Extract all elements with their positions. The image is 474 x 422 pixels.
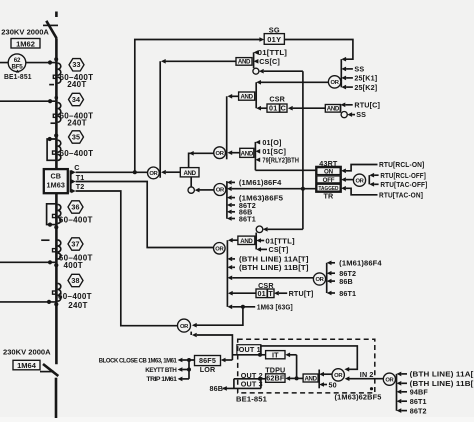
svg-text:60–400T: 60–400T: [58, 292, 92, 301]
output contact OUT 1: [237, 345, 261, 355]
or-gate close supervision: [328, 76, 340, 88]
svg-text:AND: AND: [238, 59, 251, 66]
svg-text:230KV 2000A: 230KV 2000A: [1, 28, 49, 37]
hexagon 37: [68, 238, 83, 250]
wire 43RT TAGGED line: [227, 186, 316, 191]
svg-text:AND: AND: [183, 170, 196, 177]
input 86T2: [227, 201, 256, 210]
input RTU[T]: [274, 289, 313, 298]
and-gate RTU close: [325, 105, 340, 113]
or-gate 86 lockouts: [214, 184, 226, 196]
hexagon 34: [69, 93, 84, 105]
input (1M61)86F4: [327, 259, 382, 268]
86F5 output rail: [189, 360, 195, 379]
CT 35 with bracket: [47, 133, 61, 160]
input RTU[RCL-OFF]: [369, 171, 426, 180]
input CS[C]: [254, 57, 280, 66]
svg-text:OUT 1: OUT 1: [239, 345, 261, 354]
input 86T1: [397, 397, 427, 406]
svg-text:62BF: 62BF: [266, 374, 285, 383]
arrow into AND2 collector: [256, 80, 261, 85]
node dots feeder 4: [47, 300, 51, 304]
input 1M63 [63G]: [227, 303, 292, 312]
or-gate BF internal: [332, 369, 344, 381]
svg-text:01[TTL]: 01[TTL]: [265, 236, 294, 245]
close interlock collector: [340, 59, 342, 87]
node dot feeder 2: [48, 99, 52, 103]
svg-text:RTU[C]: RTU[C]: [354, 101, 380, 110]
label box 1M62: [11, 39, 40, 49]
svg-text:86B: 86B: [210, 384, 224, 393]
input (BTH LINE) 11A[T]: [227, 255, 308, 264]
input RTU[TAC-ON]: [341, 186, 423, 200]
svg-text:36: 36: [71, 202, 79, 211]
timer TDPU 62BF box: [265, 365, 285, 382]
wire AND-bf output: [290, 377, 303, 379]
svg-text:86T1: 86T1: [239, 214, 256, 223]
CT 38: [53, 283, 61, 301]
svg-text:1M62: 1M62: [16, 39, 35, 48]
wire OR to AND2: [261, 81, 329, 83]
svg-text:OUT 3: OUT 3: [241, 379, 263, 388]
svg-text:240T: 240T: [68, 301, 87, 310]
wire 62BF output to OUT2 node: [260, 378, 266, 380]
input 86T2: [397, 406, 427, 415]
inverted input bubble for trip AND: [256, 226, 303, 233]
input 94BF: [397, 388, 429, 397]
relay 62/BF5 circle: [8, 54, 26, 73]
svg-text:AND: AND: [304, 376, 317, 383]
input 01[TTL]: [256, 236, 295, 245]
svg-text:(1M63)62BF5: (1M63)62BF5: [335, 393, 382, 402]
AND trip1 output: [232, 152, 240, 154]
input (BTH LINE) 11B[BFI]: [397, 379, 474, 388]
wire OUT1 node: [232, 354, 260, 356]
input SS: [341, 65, 364, 74]
wire OR86 output to AND-big inverted input: [199, 189, 214, 191]
svg-text:01: 01: [269, 104, 277, 113]
svg-text:AND: AND: [241, 150, 254, 157]
svg-text:1M63: 1M63: [47, 181, 66, 190]
node dot feeder 1: [48, 60, 52, 64]
bus 1M63 vertical line: [55, 38, 58, 169]
CB terminal tabs C,T1,T2: [71, 170, 75, 175]
wire 01Y loop up and right: [135, 40, 260, 173]
input 86T1: [227, 214, 256, 223]
hexagon 38: [68, 274, 83, 286]
svg-text:T1: T1: [76, 173, 85, 182]
lockout relay 86F5 box: [195, 356, 221, 375]
circuit breaker CB 1M63 box: [44, 169, 68, 193]
CT 34: [51, 103, 61, 124]
wire feeder 1: [0, 62, 55, 64]
label box 1M64: [13, 360, 40, 370]
svg-text:C: C: [74, 163, 79, 172]
CSR trip select box 01[T]: [256, 281, 274, 298]
svg-text:(1M61)86F4: (1M61)86F4: [339, 259, 382, 268]
timer IT box: [260, 350, 285, 359]
svg-text:TR: TR: [323, 192, 334, 201]
svg-text:33: 33: [72, 60, 80, 69]
BF external collector: [396, 374, 398, 411]
bus below CB: [55, 193, 58, 364]
or-gate close 2: [214, 147, 226, 159]
input 86T1: [327, 289, 356, 298]
wire OUT1 seal into T2 OR: [191, 332, 232, 360]
input 01[SC]: [255, 147, 286, 156]
input (BTH LINE) 11B[T]: [227, 263, 308, 272]
wire feeder 3: [0, 261, 55, 263]
svg-text:IN 2: IN 2: [360, 370, 374, 379]
disconnect switch 1M62 (top): [43, 12, 58, 39]
wire IN2 from external OR: [349, 378, 383, 380]
and-gate big (close master): [180, 168, 199, 194]
input 01[O]: [255, 138, 281, 147]
svg-text:CSR: CSR: [269, 94, 285, 103]
input 01[TTL]: [254, 48, 288, 57]
hexagon 33: [69, 59, 84, 71]
input 86B: [327, 277, 353, 286]
input 86B: [227, 208, 253, 217]
svg-text:LOR: LOR: [200, 365, 216, 374]
svg-text:SS: SS: [356, 110, 366, 119]
wire 43RT ON line: [255, 169, 315, 171]
AND2 input collector: [255, 82, 257, 108]
svg-text:OR: OR: [180, 324, 189, 330]
svg-text:OR: OR: [215, 247, 224, 253]
wire T1 coil line: [76, 182, 214, 248]
svg-text:T: T: [268, 289, 273, 298]
and-gate trip2: [238, 233, 256, 250]
relay output SG 01Y box: [264, 25, 284, 44]
wire AND2 output down to OR: [232, 95, 239, 97]
node dot on tag line: [301, 187, 305, 191]
wire AND-big output into OR-main: [166, 171, 181, 173]
wire tag-not vertical: [302, 71, 304, 229]
disconnect switch 1M64 (bottom): [40, 364, 58, 418]
svg-text:(BTH LINE) 11A[BFI]: (BTH LINE) 11A[BFI]: [410, 370, 474, 379]
CSR close select box 01[C]: [267, 94, 287, 112]
wire feeder 4: [0, 301, 55, 303]
node dots feeder 3: [48, 260, 52, 264]
svg-text:RTU[T]: RTU[T]: [289, 289, 314, 298]
node dot dashed corner: [370, 387, 373, 390]
svg-text:37: 37: [71, 239, 79, 248]
wire from 01Y to SS collector: [284, 40, 353, 60]
input CS[T]: [256, 245, 288, 254]
svg-text:86B: 86B: [339, 277, 353, 286]
svg-text:OR: OR: [149, 171, 158, 177]
and-gate AND1 close permissive: [236, 58, 252, 66]
svg-text:RTU[TAC-ON]: RTU[TAC-ON]: [379, 191, 423, 200]
output 86B: [210, 384, 227, 393]
relay BE1-851 dashed boundary: [238, 339, 375, 393]
svg-text:86F5: 86F5: [199, 356, 216, 365]
wire IT input from AND-bf: [290, 354, 297, 356]
svg-text:86T1: 86T1: [410, 397, 427, 406]
AND1 collector: [253, 52, 255, 68]
svg-text:35: 35: [72, 132, 80, 141]
svg-text:25[K2]: 25[K2]: [354, 83, 377, 92]
svg-text:01[TTL]: 01[TTL]: [258, 48, 287, 57]
or-gate main trip: [214, 243, 226, 255]
OR86 collector: [226, 181, 228, 219]
input RTU[RCL-ON]: [341, 160, 424, 173]
svg-text:KEYTT BTH: KEYTT BTH: [145, 368, 176, 374]
input (1M61)86F4: [227, 178, 282, 187]
input (BTH LINE) 11A[BFI]: [397, 370, 474, 379]
svg-text:SS: SS: [354, 65, 364, 74]
wire down to T2 OR: [197, 307, 243, 325]
CB terminal bar: [70, 170, 72, 192]
svg-text:(BTH LINE) 11B[T]: (BTH LINE) 11B[T]: [239, 263, 309, 272]
svg-text:TRIP 1M61: TRIP 1M61: [146, 377, 177, 383]
svg-text:94BF: 94BF: [410, 388, 429, 397]
svg-text:BF5: BF5: [11, 64, 23, 71]
input 86T2: [327, 269, 356, 278]
trip collector: [226, 240, 228, 307]
svg-text:OR: OR: [331, 80, 340, 86]
input RTU[TAC-OFF]: [369, 180, 427, 189]
inverted input from 43RT tag line: [253, 68, 303, 74]
svg-text:BE1-851: BE1-851: [4, 72, 32, 81]
wire AND-RTU output into CSR box: [293, 107, 326, 109]
svg-text:79[RLY2]BTH: 79[RLY2]BTH: [262, 155, 299, 164]
svg-text:86T1: 86T1: [339, 289, 356, 298]
or-gate T2 trip: [178, 319, 191, 332]
input 79[RLY2]BTH: [255, 155, 299, 164]
svg-text:BE1-851: BE1-851: [236, 395, 267, 404]
or-gate 43RT off: [341, 174, 369, 186]
output KEYTT BTH: [145, 367, 189, 374]
wire T2 coil line: [76, 191, 178, 326]
svg-text:60–400T: 60–400T: [60, 149, 94, 158]
svg-text:RTU[RCL-OFF]: RTU[RCL-OFF]: [380, 171, 426, 180]
svg-text:34: 34: [72, 95, 80, 104]
svg-text:CS[T]: CS[T]: [269, 245, 289, 254]
wire feeder 2: [0, 100, 55, 102]
AND trip1 collector: [254, 142, 256, 170]
input 50: [319, 380, 337, 389]
svg-text:01[O]: 01[O]: [262, 138, 281, 147]
svg-text:01Y: 01Y: [267, 35, 281, 44]
wire OR2 output to AND-big top input: [189, 153, 214, 167]
svg-text:IT: IT: [272, 350, 279, 359]
CT 33: [49, 63, 61, 84]
or-gate main close: [148, 167, 160, 179]
svg-text:38: 38: [71, 276, 79, 285]
svg-text:50: 50: [329, 380, 337, 389]
CT 36 with bracket: [47, 204, 61, 230]
output BLOCK CLOSE CB 1M63, 1M61: [99, 358, 189, 365]
wire trip AND output: [232, 239, 238, 241]
wire AND1 output to OR-main vertical: [166, 60, 237, 62]
svg-text:BLOCK CLOSE CB 1M63, 1M61: BLOCK CLOSE CB 1M63, 1M61: [99, 358, 178, 364]
arrow into collector: [341, 57, 346, 62]
svg-text:240T: 240T: [67, 119, 86, 128]
arrow into 01Y: [259, 37, 264, 42]
input (1M63)86F5: [227, 193, 283, 202]
svg-text:RTU[RCL-ON]: RTU[RCL-ON]: [379, 160, 424, 169]
or-gate 86 right: [313, 273, 325, 285]
svg-text:1M63 [63G]: 1M63 [63G]: [257, 303, 293, 312]
input 25[K1]: [341, 74, 377, 83]
CT 37: [41, 240, 61, 259]
hexagon 36: [68, 201, 83, 213]
wire CSR output into AND2 collector: [261, 107, 267, 109]
node junction on C line: [133, 170, 137, 174]
svg-text:86T2: 86T2: [410, 406, 427, 415]
and-gate trip1 (manual close block): [240, 148, 254, 157]
input RTU[C]: [341, 101, 381, 110]
wire C coil line: [76, 171, 148, 173]
wire into 86F5: [225, 359, 232, 361]
output contacts OUT2/OUT3 parallel rails: [223, 371, 263, 389]
output TRIP 1M61: [146, 377, 189, 384]
wire seal loop to internal OR: [261, 346, 357, 369]
svg-text:1M64: 1M64: [17, 361, 37, 370]
input 25[K2]: [341, 83, 377, 92]
svg-text:RTU[TAC-OFF]: RTU[TAC-OFF]: [380, 180, 427, 189]
svg-text:240T: 240T: [67, 80, 86, 89]
svg-text:CS[C]: CS[C]: [259, 57, 280, 66]
svg-text:OR: OR: [355, 178, 364, 184]
svg-text:CB: CB: [50, 172, 61, 181]
svg-text:OR: OR: [216, 151, 225, 157]
and-gate U-AND2: [239, 92, 255, 101]
AND-bf collector: [318, 370, 320, 389]
svg-text:OFF: OFF: [323, 177, 335, 184]
and-gate BF: [303, 374, 318, 383]
svg-text:AND: AND: [327, 106, 340, 113]
svg-text:60–400T: 60–400T: [59, 215, 93, 224]
svg-text:T2: T2: [76, 182, 85, 191]
svg-text:01: 01: [257, 289, 265, 298]
svg-text:25[K1]: 25[K1]: [354, 74, 377, 83]
svg-text:400T: 400T: [64, 261, 83, 270]
svg-text:230KV 2000A: 230KV 2000A: [3, 348, 51, 357]
svg-text:OR: OR: [315, 277, 324, 283]
inverted input SS: [341, 105, 367, 119]
svg-text:ON: ON: [324, 169, 334, 176]
svg-text:OR: OR: [334, 373, 343, 379]
wire CSR trip output: [232, 292, 256, 294]
wire OR-bf-int output: [319, 372, 332, 377]
svg-text:AND: AND: [240, 94, 253, 101]
svg-text:C: C: [281, 104, 286, 113]
svg-text:OR: OR: [385, 377, 394, 383]
svg-text:(1M61)86F4: (1M61)86F4: [239, 178, 282, 187]
or-gate BF external: [383, 373, 395, 385]
hexagon 35: [69, 131, 84, 143]
svg-text:OR: OR: [216, 188, 225, 194]
svg-text:AND: AND: [240, 238, 253, 245]
OR 86 right collector: [326, 263, 328, 293]
wire from 86 OR right: [227, 276, 313, 281]
